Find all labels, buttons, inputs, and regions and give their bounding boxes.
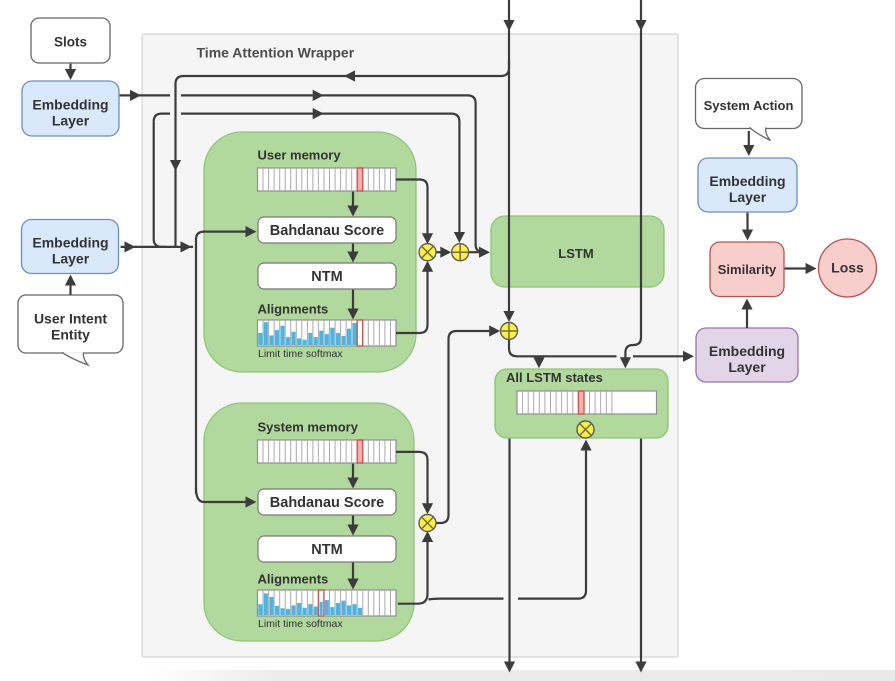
svg-text:Bahdanau Score: Bahdanau Score	[270, 495, 384, 511]
embedding layer (user intent)	[22, 220, 119, 274]
LSTM box	[491, 216, 664, 287]
user memory bar	[258, 168, 397, 191]
svg-text:NTM: NTM	[311, 269, 342, 285]
system memory bar	[258, 440, 397, 463]
wire ntm to alignments (user)	[352, 290, 354, 313]
box Bahdanau Score (system)	[258, 489, 396, 515]
wire ntm to alignments (system)	[352, 563, 354, 583]
User Intent Entity callout	[18, 295, 123, 353]
all lstm states bar	[517, 391, 657, 414]
otimes2 (system)	[419, 515, 436, 532]
svg-text:Embedding: Embedding	[709, 173, 785, 189]
box Bahdanau Score (user)	[258, 217, 396, 243]
wire user memory bar to otimes1	[396, 180, 428, 238]
otimes1 (user)	[419, 244, 436, 261]
svg-text:Layer: Layer	[728, 359, 766, 375]
svg-text:Layer: Layer	[52, 251, 90, 267]
embedding layer (slots)	[22, 81, 119, 136]
System memory block	[204, 403, 414, 641]
svg-text:Layer: Layer	[52, 113, 90, 129]
wire y=95.4 to lstm	[181, 95, 484, 252]
svg-text:Alignments: Alignments	[258, 302, 329, 317]
svg-text:User Intent: User Intent	[34, 311, 107, 327]
svg-text:All LSTM states: All LSTM states	[506, 370, 603, 385]
svg-text:Limit time softmax: Limit time softmax	[258, 348, 343, 360]
wire system alignments to otimes2 and branch	[398, 537, 428, 603]
svg-text:System Action: System Action	[704, 98, 794, 113]
wire all lstm states bottom outputs	[508, 439, 510, 666]
oplus1	[452, 244, 469, 261]
wire user intent entity to embedding	[69, 281, 71, 295]
wire top vertical with jog into all-lstm-states (x=641)	[625, 0, 641, 361]
wire otimes1 to oplus1	[436, 251, 445, 253]
svg-text:Slots: Slots	[54, 35, 87, 50]
wire purple embedding to similarity	[746, 305, 748, 328]
otimes3 (all lstm states)	[577, 421, 594, 438]
wire slots to embedding	[69, 64, 71, 73]
wire feedback horizontal y=76	[176, 60, 510, 247]
embedding layer (system action)	[698, 158, 797, 212]
svg-text:User memory: User memory	[258, 148, 342, 163]
System Action callout	[696, 79, 803, 129]
system alignments histogram	[258, 590, 397, 616]
wire system action to embedding	[748, 131, 750, 149]
wire embedding to similarity	[746, 213, 748, 234]
wire system memory bar to otimes2	[396, 452, 428, 508]
All LSTM states box	[495, 369, 668, 438]
wire top feedback vertical into oplus2 (x=509)	[508, 0, 510, 315]
wire branch down into all lstm states	[538, 357, 540, 361]
svg-text:Similarity: Similarity	[718, 262, 777, 277]
oplus2	[501, 323, 518, 340]
wire oplus1 to lstm	[469, 251, 483, 253]
svg-text:Embedding: Embedding	[32, 97, 108, 113]
wire user alignments to otimes1	[396, 267, 428, 333]
wire y=113.6 to oplus1	[154, 114, 460, 237]
wire vertical x=153.7 join	[154, 122, 166, 247]
wire embedding(slots) into wrapper y=95.4	[120, 94, 170, 96]
svg-text:Layer: Layer	[729, 189, 767, 205]
svg-text:NTM: NTM	[311, 542, 342, 558]
wire bahdanau to ntm (system)	[352, 516, 354, 529]
svg-text:System memory: System memory	[258, 420, 359, 435]
wire bahdanau to ntm (user)	[352, 244, 354, 256]
wire trunk x=196 to both bahdanau scores	[196, 232, 250, 494]
user alignments histogram	[258, 320, 397, 346]
svg-text:Limit time softmax: Limit time softmax	[258, 618, 343, 630]
svg-text:Loss: Loss	[831, 260, 864, 276]
box NTM (system)	[258, 536, 396, 562]
box NTM (user)	[258, 263, 396, 289]
svg-text:LSTM: LSTM	[558, 246, 593, 261]
User memory block	[204, 132, 416, 372]
svg-text:Entity: Entity	[51, 327, 90, 343]
embedding layer (output, purple)	[696, 328, 798, 382]
svg-text:Time Attention Wrapper: Time Attention Wrapper	[197, 45, 355, 61]
svg-text:Bahdanau Score: Bahdanau Score	[270, 223, 384, 239]
svg-text:Alignments: Alignments	[258, 572, 329, 587]
loss circle	[819, 239, 877, 297]
similarity box	[710, 242, 784, 297]
wire similarity to loss	[785, 267, 810, 269]
wire bar2 arrow to bahdanau (system)	[352, 464, 354, 482]
svg-text:Embedding: Embedding	[709, 343, 785, 359]
Slots box	[31, 18, 110, 63]
wire otimes2 to oplus2	[436, 331, 493, 523]
wire bar1 arrow to bahdanau (user)	[352, 192, 354, 210]
wire alignments2 branch to otimes3	[429, 446, 587, 600]
svg-text:Embedding: Embedding	[32, 235, 108, 251]
wire embedding(user intent) into wrapper y=246.9	[121, 246, 193, 248]
wire oplus2 output to purple embedding	[509, 340, 687, 357]
Time Attention Wrapper panel	[142, 34, 678, 657]
